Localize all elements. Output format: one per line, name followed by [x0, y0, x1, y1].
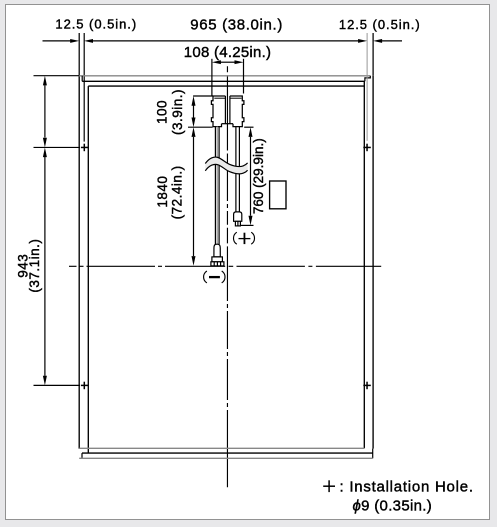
dimension 100: line and arrows [193, 106, 195, 118]
svg-text:1840: 1840 [155, 176, 170, 208]
junction box right outline [230, 96, 244, 127]
connector negative: nose [214, 244, 220, 257]
svg-text:760 (29.9in.): 760 (29.9in.) [251, 138, 266, 214]
panel frame: bottom outer edge (gray) [79, 457, 373, 459]
junction box left outline [211, 96, 225, 127]
svg-text:(37.1in.): (37.1in.) [27, 239, 42, 293]
svg-text:(3.9in.): (3.9in.) [170, 89, 185, 135]
connector negative: collar [212, 257, 223, 262]
junction box center bridge bottom [222, 123, 234, 125]
svg-text:12.5 (0.5in.): 12.5 (0.5in.) [339, 17, 421, 32]
extension line: right hole centerline (gray) [366, 33, 368, 141]
installation hole bottom-right [363, 382, 371, 390]
installation hole top-right [363, 144, 371, 152]
panel frame: top-right lip step [365, 76, 370, 82]
svg-text:108 (4.25in.): 108 (4.25in.) [184, 44, 271, 61]
extension line: right panel edge (top dim) [372, 33, 374, 75]
connector negative: base with teeth [211, 262, 224, 266]
dimension 100: top tick [193, 95, 213, 97]
label (+) [233, 232, 254, 244]
svg-text:(72.4in.): (72.4in.) [170, 165, 185, 219]
panel frame: top lip line [82, 80, 365, 82]
cable break symbol (wavy band) [205, 157, 247, 174]
cable negative (left): outlines [214, 127, 216, 245]
junction box right lid line [230, 97, 241, 99]
label frame rectangle [270, 181, 286, 209]
cable negative gray core [216, 127, 218, 245]
dimension 943 left: extension line mid [34, 146, 81, 148]
svg-text:100: 100 [154, 100, 169, 124]
dimension 760: top tick [244, 126, 253, 128]
installation hole top-left [81, 144, 89, 152]
panel frame: top outer edge (gray) [79, 75, 371, 77]
dimension segment (top offset): line and arrows [44, 85, 46, 137]
dimension 943 left: extension line top [34, 75, 80, 77]
dimension 108: line and arrows [221, 61, 236, 63]
extension line: left hole centerline [83, 33, 85, 142]
svg-text:: Installation Hole.: : Installation Hole. [340, 479, 474, 496]
svg-text:12.5 (0.5in.): 12.5 (0.5in.) [55, 17, 137, 32]
junction box left inner edge [224, 96, 226, 124]
panel frame: bottom lip left step [81, 453, 83, 458]
svg-text:ϕ9 (0.35in.): ϕ9 (0.35in.) [353, 498, 433, 515]
dimension 760: line and arrows [250, 137, 252, 216]
dimension 943: line and arrows [44, 157, 46, 376]
vertical centerline of panel [226, 66, 228, 487]
connector positive: body [234, 212, 242, 221]
panel frame: bottom inner edge (gray) [79, 447, 364, 449]
panel frame: right inner edge [363, 81, 365, 448]
label (-) [204, 271, 225, 283]
dimension 760: bottom tick [241, 224, 254, 226]
legend: installation hole cross [323, 480, 335, 492]
connector positive: tip [235, 221, 240, 226]
panel frame: left outer edge [78, 75, 80, 448]
dimension 12.5 left: line and arrow [43, 40, 72, 42]
panel frame: right outer edge [372, 75, 374, 448]
dimension 943 left: extension line bottom [34, 384, 81, 386]
extension line: left panel edge (top dim) [78, 33, 80, 75]
dimension 108: extension lines [211, 59, 213, 96]
panel frame: left inner edge [87, 86, 89, 453]
panel frame: top inner edge [88, 85, 364, 87]
panel frame: bottom lip top line [82, 452, 373, 454]
installation hole bottom-left [81, 382, 89, 390]
panel frame: bottom lip right step [372, 449, 374, 459]
junction box left lid line [214, 97, 225, 99]
svg-text:965 (38.0in.): 965 (38.0in.) [190, 17, 283, 34]
dimension 1840: line and arrows [193, 137, 195, 256]
panel frame: top-left lip step [81, 76, 83, 82]
dimension 100/1840: shared tick [188, 126, 213, 128]
cable positive (right): outlines [235, 127, 237, 212]
dimension 965: line and arrows [93, 40, 359, 42]
horizontal centerline of panel [69, 265, 381, 267]
junction box right inner edge [229, 96, 231, 124]
dimension 12.5 right: line and arrow [382, 40, 402, 42]
